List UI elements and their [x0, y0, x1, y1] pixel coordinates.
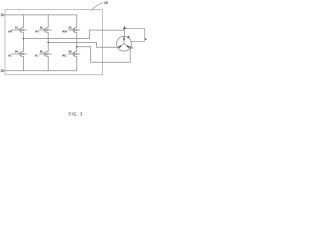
inverter module box 10	[5, 10, 103, 75]
leader arcs for transistor reference numerals	[18, 28, 74, 53]
transistor arrows	[22, 29, 24, 31]
motor windings Y	[118, 36, 130, 47]
svg-text:WL: WL	[62, 53, 67, 57]
wire bottom bus	[3, 70, 77, 72]
node phase W dot	[76, 46, 78, 48]
svg-text:WH: WH	[62, 29, 67, 33]
transistor WL (lower col3)	[68, 51, 81, 56]
node phase U dot	[23, 38, 25, 40]
arrowhead on leader	[123, 26, 126, 30]
wire top bus	[3, 14, 77, 16]
terminal N (bottom left circle)	[1, 70, 3, 72]
wire column 2 vertical	[47, 15, 49, 71]
transistor UL (lower col1)	[11, 51, 27, 56]
svg-text:2b: 2b	[127, 36, 130, 39]
svg-text:VL: VL	[35, 53, 39, 57]
svg-text:2d: 2d	[145, 38, 147, 41]
motor M circle	[117, 36, 132, 51]
transistor VH (upper col2)	[39, 27, 52, 32]
wire column 3 vertical	[76, 15, 78, 71]
svg-text:UH: UH	[8, 29, 12, 33]
svg-text:UL: UL	[8, 53, 12, 57]
transistor WH (upper col3)	[68, 27, 81, 32]
motor winding coils	[119, 38, 130, 48]
svg-text:VH: VH	[35, 29, 39, 33]
wire phase W to motor right	[77, 47, 130, 63]
node phase V dot	[47, 42, 49, 44]
wire phase V to motor left	[48, 42, 118, 47]
leader line to label 10	[91, 3, 103, 11]
transistor UH (upper col1)	[11, 27, 27, 32]
svg-text:2c: 2c	[130, 47, 133, 50]
svg-text:FIG. 3: FIG. 3	[69, 112, 84, 117]
leader to motor right side	[125, 29, 144, 42]
svg-text:10: 10	[104, 1, 108, 5]
wire phase U to motor top	[23, 30, 124, 38]
wire column 1 vertical	[22, 15, 24, 71]
transistor VL (lower col2)	[39, 51, 52, 56]
terminal P (top left circle)	[1, 14, 3, 16]
